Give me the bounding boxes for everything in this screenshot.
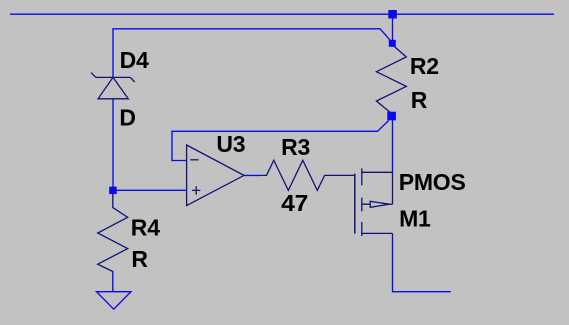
svg-text:R4: R4	[131, 215, 160, 241]
svg-text:R2: R2	[410, 53, 439, 79]
svg-text:R3: R3	[281, 134, 310, 160]
svg-text:R: R	[131, 246, 148, 272]
svg-text:PMOS: PMOS	[399, 169, 466, 195]
svg-text:47: 47	[281, 190, 308, 216]
svg-text:U3: U3	[216, 131, 245, 157]
svg-text:D: D	[119, 105, 135, 131]
svg-text:R: R	[411, 87, 428, 113]
svg-text:D4: D4	[120, 47, 149, 73]
svg-text:M1: M1	[399, 205, 431, 231]
